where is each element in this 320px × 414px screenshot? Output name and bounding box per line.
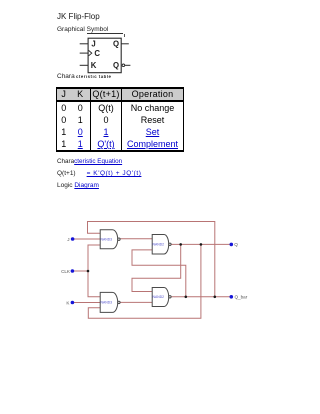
svg-text:K: K [66,300,70,305]
gate U1 NAND3 body [100,230,120,249]
junction Q_bar node A [185,296,188,299]
svg-text:C: C [94,49,100,58]
input stub C [80,52,88,54]
junction CLK/trunk [87,270,90,273]
wire Q feedback to U2 bottom input [88,244,201,318]
heading: Chara(cteristic table) [57,73,75,80]
wire U2 output to U4 [120,301,152,303]
wire Q output net [171,243,231,245]
heading: Logic Diagram [57,182,99,189]
wire Q_bar feedback to U1 top input [88,222,215,297]
input stub K [80,64,88,66]
heading: Graphical Symbol [57,26,123,33]
terminal dot Q_bar [230,295,234,299]
underline tail tick [124,34,125,37]
equation: Q(t+1) = K'Q(t) + JQ'(t) [57,170,141,177]
flip-flop body box [88,38,121,72]
junction Q node A [179,243,182,246]
wire Q_bar feedback to U3 bottom input [132,250,186,297]
wire CLK trunk [88,245,100,297]
terminal dot Q [230,243,234,247]
output stub Q [121,43,129,45]
output bubble Q' [122,64,125,67]
junction Q_bar node B [214,296,217,299]
terminal dot K [71,301,75,305]
junction Q node B [200,243,203,246]
svg-text:Q: Q [113,61,119,70]
gate U2 NAND3 body [100,292,120,312]
input stub J [80,43,88,45]
title: JK Flip-Flop [57,12,100,21]
clock edge triangle [89,50,92,55]
heading: Characteristic Equation [57,158,122,165]
svg-text:Q: Q [234,242,238,247]
svg-text:J: J [67,237,69,242]
svg-text:Q_bar: Q_bar [235,295,248,300]
svg-text:J: J [91,40,95,49]
svg-text:K: K [91,61,97,70]
wire J to U1 [73,238,101,240]
terminal dot CLK [71,269,75,273]
svg-text:NAND2: NAND2 [153,243,165,247]
wire K to U2 [72,302,100,304]
wire Q_bar output net [171,296,231,298]
gate U4 NAND2 body [152,288,171,307]
terminal dot J [71,237,75,241]
svg-text:Q: Q [113,40,119,49]
svg-text:CLK: CLK [61,269,71,274]
gate U3 NAND2 body [152,235,171,255]
wire CLK to trunk [72,270,88,272]
wire Q feedback to U4 top input [132,244,181,291]
output stub Q' [125,64,131,66]
wire U1 output to U3 [120,238,152,240]
svg-text:NAND2: NAND2 [153,295,165,299]
svg-text:NAND3: NAND3 [101,301,113,305]
characteristic table [56,87,184,152]
svg-text:NAND3: NAND3 [101,237,113,241]
